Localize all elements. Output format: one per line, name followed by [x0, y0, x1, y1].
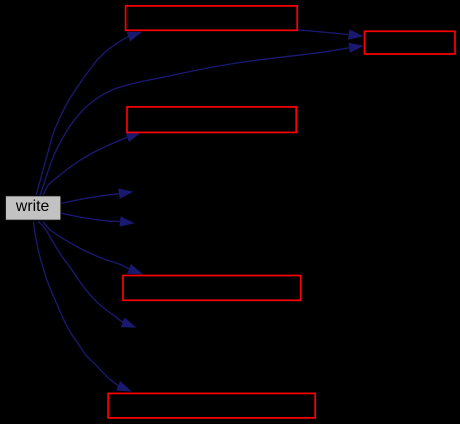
- wire write to box4: [43, 222, 129, 269]
- wire write to box1: [36, 37, 128, 196]
- arrowhead box1 to box2: [348, 29, 363, 39]
- wire write to box2: [40, 48, 349, 196]
- arrowhead write to box1: [127, 32, 143, 42]
- wire box1 to box2: [298, 30, 349, 35]
- node write: [5, 196, 61, 221]
- box4: [123, 276, 301, 301]
- arrowhead write to box2: [348, 43, 363, 53]
- arrowhead write to node C: [121, 317, 137, 327]
- svg-text:write: write: [15, 198, 50, 215]
- wire write to node C: [38, 222, 123, 323]
- box1: [126, 6, 298, 30]
- arrowhead write to box3: [126, 132, 142, 142]
- wire write to box5: [34, 222, 119, 386]
- box2: [365, 31, 456, 54]
- wire write to node B: [61, 213, 120, 221]
- arrowhead write to box4: [127, 264, 143, 274]
- wire write to box3: [43, 137, 127, 195]
- arrowhead write to box5: [116, 381, 132, 392]
- box3: [127, 107, 296, 132]
- wire write to node A: [61, 194, 119, 204]
- box5: [108, 393, 315, 418]
- arrowhead write to node A: [118, 189, 133, 199]
- arrowhead write to node B: [119, 216, 134, 226]
